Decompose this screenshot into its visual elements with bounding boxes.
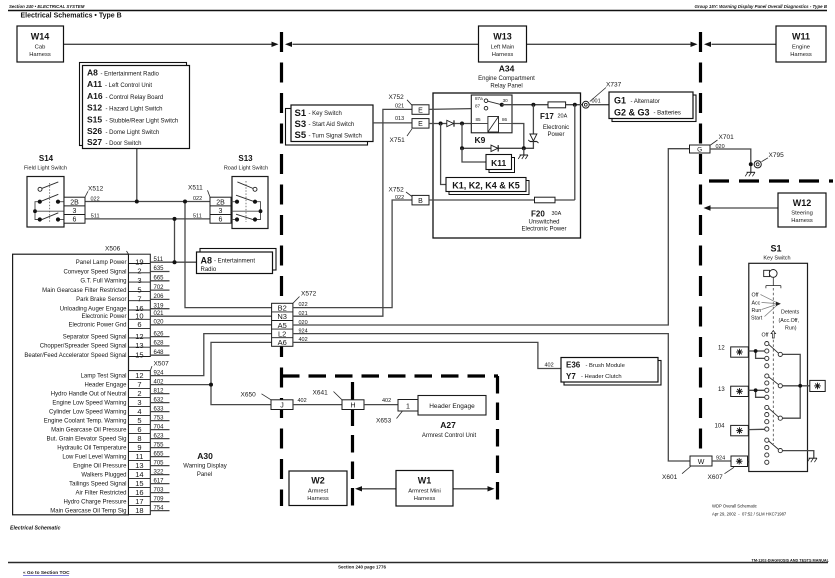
svg-text:Acc: Acc [752,301,761,307]
svg-text:6: 6 [73,217,77,224]
wire J to H [293,404,342,406]
wire H to X653 [364,404,398,406]
svg-text:12: 12 [135,332,143,341]
svg-text:2: 2 [137,267,141,276]
svg-text:402: 402 [298,398,307,404]
svg-text:A8: A8 [201,256,213,266]
svg-text:Panel Lamp Power: Panel Lamp Power [76,260,127,266]
svg-text:20A: 20A [558,114,568,120]
svg-text:Engine Compartment: Engine Compartment [478,76,535,82]
wire 511 drop to X506 pin19 [174,219,176,262]
svg-text:3: 3 [137,276,141,285]
legend box S1 S3 S5 [286,105,374,145]
svg-text:2B: 2B [70,200,79,207]
svg-text:Main Gearcase Filter Restricte: Main Gearcase Filter Restricted [42,288,126,294]
ring terminal X737 [582,101,589,108]
svg-text:W11: W11 [792,32,810,42]
harness W13 [479,26,527,62]
svg-text:(Acc.Off,: (Acc.Off, [779,318,800,324]
ground below X795 [745,166,755,176]
svg-text:924: 924 [299,328,308,334]
svg-text:Harness: Harness [29,52,51,58]
label A30 warning display panel [183,451,226,478]
svg-text:753: 753 [154,415,165,421]
wire 86 to node C [512,124,524,149]
junction 511/A8 [173,260,177,264]
junction node C [522,146,526,150]
svg-text:- Stubble/Rear Light Switch: - Stubble/Rear Light Switch [106,118,179,124]
svg-text:S5: S5 [295,130,307,141]
footer rule [8,562,828,564]
junction 85 node [460,122,464,126]
armrest unit boundary dashed middle [351,382,354,507]
svg-text:Section 240 page 1776: Section 240 page 1776 [338,565,387,570]
svg-text:A6: A6 [278,338,287,347]
svg-text:X607: X607 [708,474,724,481]
switch S13 road light switch [224,154,268,229]
svg-text:013: 013 [395,116,404,122]
svg-text:Harness: Harness [790,52,812,58]
junction node B [460,146,464,150]
svg-text:J: J [280,403,284,410]
svg-text:Air Filter Restricted: Air Filter Restricted [75,490,126,496]
svg-text:Run: Run [752,308,762,314]
wire W1 to left boundary [362,488,396,490]
svg-text:- Entertainment Radio: - Entertainment Radio [101,72,160,78]
terminal 104 [715,424,765,436]
svg-text:1: 1 [406,404,410,411]
svg-text:X601: X601 [662,474,678,481]
connector X511 pin table [210,197,231,224]
svg-text:16: 16 [135,488,143,497]
svg-text:3: 3 [219,208,223,215]
connector pin J (X650) [271,400,293,410]
svg-text:755: 755 [154,442,165,448]
svg-text:Unswitched: Unswitched [528,220,559,226]
svg-text:85: 85 [476,117,482,122]
svg-text:020: 020 [299,320,308,326]
svg-text:Unloading Auger Engage: Unloading Auger Engage [60,307,127,313]
svg-text:7: 7 [137,380,141,389]
connector pin G (X701) [690,145,711,154]
svg-text:X507: X507 [154,361,170,368]
harness W1 [396,471,453,507]
wire 022 bus S14 to S13 [85,201,210,203]
svg-text:- Left Control Unit: - Left Control Unit [105,83,152,89]
svg-text:30A: 30A [552,211,562,217]
svg-text:632: 632 [154,397,165,403]
junction legend/022 [135,200,139,204]
svg-text:- Alternator: - Alternator [631,99,660,105]
svg-text:022: 022 [193,196,202,202]
svg-text:Apr 29, 2002 - 07:52 / SLM: Apr 29, 2002 - 07:52 / SLM HXC71987 [712,512,787,517]
svg-text:A16: A16 [87,91,103,101]
connector X506 pin column [129,254,151,359]
svg-text:3: 3 [137,398,141,407]
wire 022 X572 B2 to X752 B [293,200,412,308]
svg-text:B: B [418,198,423,205]
svg-text:Chopper/Spreader Speed Signal: Chopper/Spreader Speed Signal [40,344,127,350]
svg-text:Cab: Cab [35,45,46,51]
svg-text:Separator Speed Signal: Separator Speed Signal [63,334,127,340]
svg-text:6: 6 [219,217,223,224]
svg-text:Header Engage: Header Engage [84,382,127,388]
svg-text:Off: Off [762,333,769,339]
svg-text:001: 001 [592,98,601,104]
svg-text:Beater/Feed Accelerator Speed: Beater/Feed Accelerator Speed Signal [24,353,126,359]
wire 402 X572 A6 to E36 [293,342,561,368]
svg-text:Harness: Harness [492,52,514,58]
svg-text:Engine: Engine [792,45,810,51]
svg-text:Y7: Y7 [566,372,576,381]
svg-text:A34: A34 [499,64,515,74]
svg-text:Power: Power [547,132,564,138]
svg-text:- Turn Signal Switch: - Turn Signal Switch [309,133,362,139]
svg-text:Low Fuel Level Warning: Low Fuel Level Warning [62,454,126,460]
svg-text:F20: F20 [531,210,545,219]
svg-text:Radio: Radio [201,267,217,273]
svg-text:W12: W12 [793,198,812,208]
svg-text:623: 623 [154,433,165,439]
svg-text:754: 754 [154,505,165,511]
svg-text:Key Switch: Key Switch [763,255,790,261]
svg-text:665: 665 [154,276,165,282]
external terminal at key switch [810,380,825,391]
key switch S1 box [749,263,808,471]
terminal 13 [718,386,765,397]
svg-text:Conveyor Speed Signal: Conveyor Speed Signal [63,269,126,275]
detents note [779,310,800,332]
svg-text:511: 511 [193,214,202,220]
junction 402 [209,383,213,387]
connector pin B (X752/022) [412,195,429,205]
svg-text:X737: X737 [606,82,622,89]
svg-text:30: 30 [503,98,509,103]
svg-text:14: 14 [135,470,143,479]
junction zener tap [531,103,535,107]
svg-text:626: 626 [154,331,165,337]
svg-text:Walkers Plugged: Walkers Plugged [81,472,126,478]
X507 signal names [44,373,127,514]
wire 511 bus S14 to S13 [85,218,210,220]
label F20 [521,210,566,233]
connector pin E (X752/021) [412,105,429,115]
svg-text:S1: S1 [295,108,307,119]
svg-text:87a: 87a [475,96,483,101]
relay K11 box [486,155,515,173]
svg-text:A8: A8 [87,68,98,78]
svg-text:402: 402 [545,363,554,369]
junction K1 feed [439,122,443,126]
svg-text:Field Light Switch: Field Light Switch [24,166,67,172]
svg-text:- Hazard Light Switch: - Hazard Light Switch [106,107,163,113]
svg-text:G1: G1 [614,96,626,106]
X507 wire labels [154,370,165,511]
svg-text:12: 12 [135,371,143,380]
harness W2 [289,471,347,506]
svg-text:Detents: Detents [781,310,800,316]
terminal X607 [731,456,748,467]
svg-text:X653: X653 [376,417,392,424]
svg-text:402: 402 [382,398,391,404]
svg-text:X701: X701 [719,134,735,141]
svg-text:709: 709 [154,496,165,502]
svg-text:W: W [698,459,705,466]
svg-text:702: 702 [154,285,165,291]
svg-text:X751: X751 [390,137,406,144]
svg-text:Main Gearcase Oil Pressure: Main Gearcase Oil Pressure [51,427,127,433]
svg-text:Main Gearcase Oil Temp Sig: Main Gearcase Oil Temp Sig [50,508,126,514]
svg-text:648: 648 [154,350,165,356]
svg-text:E: E [418,107,423,114]
svg-text:Harness: Harness [307,496,329,502]
harness W11 [776,26,826,62]
source G1 G2 G3 box [609,92,696,122]
svg-text:Cylinder Low Speed Warning: Cylinder Low Speed Warning [49,409,126,415]
X506 signal names [24,260,127,359]
svg-text:A30: A30 [197,451,213,461]
svg-text:Engine Coolant Temp. Warning: Engine Coolant Temp. Warning [44,418,127,424]
svg-text:K1, K2, K4 & K5: K1, K2, K4 & K5 [452,180,520,190]
junction F20 tap [573,103,577,107]
harness W14 [17,26,64,62]
svg-text:X641: X641 [313,389,329,396]
wire 924 X572 L2 to X601 W [293,334,690,461]
wire legend drop to 022 [136,149,138,202]
svg-text:Steering: Steering [791,211,813,217]
svg-text:5: 5 [137,416,141,425]
junction 511 drop [173,217,177,221]
svg-text:9: 9 [137,443,141,452]
ground in relay panel [518,148,528,159]
svg-text:812: 812 [154,388,165,394]
svg-text:Header Engage: Header Engage [429,403,475,410]
connector X572 pin table [272,303,293,347]
label F17 [540,112,569,138]
svg-text:Hydro Handle Out of Neutral: Hydro Handle Out of Neutral [51,391,127,397]
svg-text:Electronic Power: Electronic Power [521,227,566,233]
relay panel A34 box [433,93,581,238]
wire W14 to boundary [64,43,272,45]
svg-text:Park Brake Sensor: Park Brake Sensor [76,297,126,303]
wire 021 X572 N3 to X752 E [293,109,412,316]
svg-text:A11: A11 [87,79,102,89]
position labels Off Acc Run Start [751,293,763,322]
svg-text:3: 3 [73,208,77,215]
svg-text:W2: W2 [311,476,325,486]
svg-text:X512: X512 [88,186,104,193]
harness boundary dashed line (cab/left main) [280,32,283,506]
rotary fan lines [761,295,778,317]
svg-text:Group 15Y: Warning Display Pan: Group 15Y: Warning Display Panel Overall… [695,4,828,9]
junction 022/B2 drop [183,200,187,204]
connector X507 pin column [129,371,151,515]
svg-text:617: 617 [154,478,165,484]
svg-text:633: 633 [154,406,165,412]
svg-text:635: 635 [154,266,165,272]
svg-text:Warning Display: Warning Display [183,464,226,470]
svg-text:Electronic Power: Electronic Power [81,314,126,320]
svg-text:Engine Oil Pressure: Engine Oil Pressure [73,463,127,469]
key switch contact circles [765,342,783,465]
wire boundary to W13 [293,43,479,45]
svg-text:X752: X752 [389,94,405,101]
svg-text:WDP Overall Schematic: WDP Overall Schematic [712,504,757,509]
key icon [764,270,777,278]
svg-text:Harness: Harness [791,218,813,224]
switch arms [769,344,779,449]
svg-text:H: H [350,403,355,410]
zener diode VR1 [524,105,539,149]
svg-text:G.T. Full Warning: G.T. Full Warning [80,279,126,285]
wire X737 to G1 [589,104,609,106]
diode D2 [491,145,498,151]
svg-text:Tailings Speed Signal: Tailings Speed Signal [69,481,126,487]
svg-text:Hydro Charge Pressure: Hydro Charge Pressure [63,499,127,505]
wire 020 pin6 to X572 A5 [150,324,271,326]
svg-text:Harness: Harness [414,496,436,502]
relay group K1 K2 K4 K5 box [446,178,529,195]
svg-text:206: 206 [154,294,165,300]
svg-text:704: 704 [154,424,165,430]
svg-text:- Door Switch: - Door Switch [106,141,142,147]
wire 013 S-box to X751 E [373,122,412,124]
svg-text:Left Main: Left Main [491,45,515,51]
svg-text:- Dome Light Switch: - Dome Light Switch [106,130,160,136]
module E36 Y7 box [561,358,661,386]
wire arm2 to external terminal [782,385,809,387]
svg-text:705: 705 [154,460,165,466]
wire 021 pin10 to X572 N3 [150,315,271,317]
svg-text:S12: S12 [87,103,102,113]
svg-text:Armrest: Armrest [308,489,329,495]
svg-text:Electrical Schematics • Type B: Electrical Schematics • Type B [21,13,122,20]
mechanical dashed link [772,288,774,444]
key stem and bracket [766,277,781,288]
svg-text:S13: S13 [238,154,253,163]
svg-text:5: 5 [137,285,141,294]
header rule [8,10,827,12]
svg-text:E36: E36 [566,361,581,370]
svg-text:- Brush Module: - Brush Module [586,363,625,369]
connector pin 1 (X653) [398,400,418,412]
svg-text:A27: A27 [440,420,456,430]
svg-text:- Key Switch: - Key Switch [309,111,342,117]
wire W12 to boundary [711,207,779,209]
svg-text:655: 655 [154,451,165,457]
wire 022 drop to X572 B2 [185,202,272,308]
svg-text:87: 87 [475,104,481,109]
wire 402 pin7 to X572 A6 and armrest [150,342,271,384]
svg-text:6: 6 [137,320,141,329]
svg-text:2B: 2B [216,200,225,207]
radio A8 box [197,249,277,274]
svg-text:022: 022 [299,302,308,308]
fuse F17 [548,102,566,108]
X506 wire stubs and labels [150,272,169,356]
wire 021 entry to K9 87 [429,108,484,109]
terminal 12 [718,345,765,358]
svg-text:13: 13 [718,387,725,393]
fuse F20 [535,197,556,203]
svg-text:S1: S1 [770,244,781,254]
connector X512 pin table [64,197,85,224]
svg-text:S14: S14 [39,154,54,163]
svg-text:Electronic: Electronic [543,125,569,131]
svg-text:Electronic Power Gnd: Electronic Power Gnd [68,323,126,329]
svg-text:15: 15 [135,479,143,488]
legend box A8-S27 [80,63,190,149]
svg-text:S26: S26 [87,126,102,136]
svg-text:W14: W14 [31,32,50,42]
X572 wire labels [299,302,308,343]
connector pin H (X641) [342,400,364,410]
svg-text:17: 17 [135,497,143,506]
svg-text:022: 022 [395,195,404,201]
svg-text:15: 15 [135,350,143,359]
svg-text:X795: X795 [769,152,785,159]
svg-text:11: 11 [136,452,144,461]
ground at key switch [807,458,817,462]
wire 511 pin19 to A8 radio [150,261,196,263]
key switch S1 title [763,244,790,262]
svg-text:X511: X511 [188,185,203,192]
X507 wire stubs [150,394,169,511]
svg-text:703: 703 [154,487,165,493]
svg-text:Section 240 • ELECTRICAL SYSTE: Section 240 • ELECTRICAL SYSTEM [9,4,85,9]
svg-text:TM-1102-DIAGNOSIS AND TESTS MA: TM-1102-DIAGNOSIS AND TESTS MANUAL [752,559,830,563]
right side bus run-acc [782,354,800,418]
svg-text:- Control Relay Board: - Control Relay Board [106,95,164,101]
ring terminal X795 [754,161,761,168]
svg-text:2: 2 [137,389,141,398]
svg-text:319: 319 [154,303,165,309]
svg-text:18: 18 [135,506,143,515]
wire W1 to right boundary [453,488,488,490]
svg-text:- Batteries: - Batteries [654,111,681,117]
svg-text:Road Light Switch: Road Light Switch [224,166,268,172]
svg-text:Engine Low Speed Warning: Engine Low Speed Warning [52,400,126,406]
diode D1 [447,120,454,126]
svg-text:X650: X650 [241,391,257,398]
wire X607 to key switch [748,461,765,463]
svg-text:13: 13 [135,461,143,470]
svg-text:X506: X506 [105,246,121,253]
svg-text:Electrical Schematic: Electrical Schematic [10,526,61,532]
svg-text:322: 322 [154,469,165,475]
wire W13 to boundary [527,43,691,45]
svg-text:86: 86 [502,117,508,122]
wire to K1 K2 K4 K5 [441,124,446,185]
A30 signal name box [13,254,129,515]
armrest unit boundary dashed top [282,374,498,377]
svg-text:E: E [418,121,423,128]
label A34 [478,64,535,90]
svg-text:W1: W1 [418,476,432,486]
switch S14 field light switch [24,154,67,227]
svg-text:022: 022 [91,196,100,202]
wire 924 pin12 to X572 L2 [150,334,271,376]
svg-text:But. Grain Elevator Speed Sig: But. Grain Elevator Speed Sig [46,436,126,442]
svg-text:Lamp Test Signal: Lamp Test Signal [81,373,127,379]
connector pin W (X601) [690,456,712,466]
header engage input box [418,396,486,416]
svg-text:Relay Panel: Relay Panel [490,84,522,90]
svg-text:K9: K9 [475,135,486,145]
svg-text:S27: S27 [87,137,102,147]
wire G to X795 ground [710,149,751,166]
relay K9 [471,95,512,133]
